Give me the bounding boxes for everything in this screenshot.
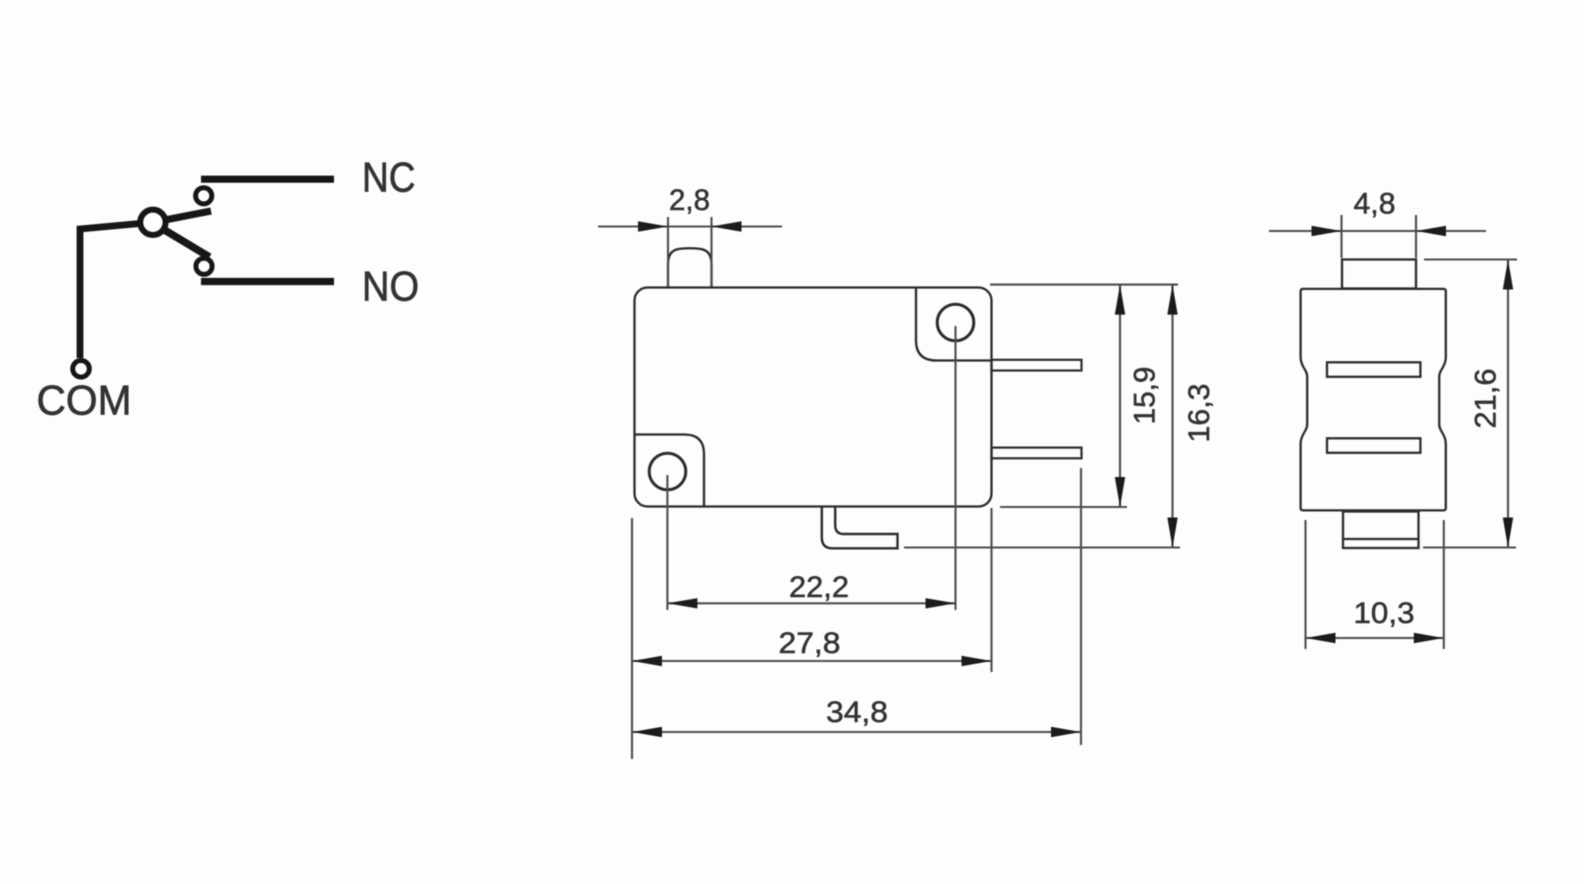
arrowhead 21,6 bottom bbox=[1503, 518, 1513, 548]
arrowhead 2,8 right bbox=[712, 221, 742, 231]
dim 15,9 / 16,3 top extension bbox=[990, 284, 1178, 286]
wire NO line bbox=[201, 278, 334, 285]
dim 15,9 line bbox=[1119, 285, 1121, 507]
svg-text:22,2: 22,2 bbox=[789, 571, 849, 604]
svg-text:NO: NO bbox=[362, 263, 419, 310]
dim 2,8 line bbox=[598, 225, 782, 227]
COM bent terminal (bottom) bbox=[822, 507, 898, 549]
bottom terminal blade line bbox=[1343, 538, 1419, 540]
NO blade terminal (lower right) bbox=[992, 448, 1082, 459]
svg-text:2,8: 2,8 bbox=[669, 184, 710, 217]
arrowhead 4,8 right bbox=[1416, 226, 1446, 236]
dim 16,3 line bbox=[1171, 285, 1173, 548]
dim 4,8 extension lines bbox=[1340, 215, 1342, 258]
top-right mounting hole bbox=[937, 304, 974, 341]
svg-text:16,3: 16,3 bbox=[1183, 384, 1216, 443]
dim 21,6 top extension bbox=[1424, 258, 1517, 260]
svg-text:34,8: 34,8 bbox=[826, 696, 888, 729]
top-right mounting boss contour bbox=[916, 288, 991, 361]
dim 15,9 bottom extension bbox=[1000, 506, 1127, 508]
arrowhead 10,3 right bbox=[1414, 633, 1444, 643]
svg-text:15,9: 15,9 bbox=[1129, 367, 1162, 425]
upper terminal slot bbox=[1327, 362, 1420, 377]
dim 27,8 line bbox=[632, 660, 992, 662]
dim 21,6 line bbox=[1507, 260, 1509, 548]
arrowhead 21,6 top bbox=[1503, 260, 1513, 290]
lower terminal slot bbox=[1327, 438, 1420, 453]
lever to NC contact bbox=[152, 211, 211, 223]
svg-text:21,6: 21,6 bbox=[1470, 369, 1503, 429]
NO contact circle bbox=[196, 258, 212, 274]
NC contact circle bbox=[196, 188, 212, 204]
NC blade terminal (upper right) bbox=[992, 360, 1082, 371]
dim 22,2 extension from bottom-left hole bbox=[666, 475, 668, 610]
end view body outline with waist bbox=[1301, 289, 1446, 511]
switch body outline bbox=[635, 288, 992, 507]
wire NC line bbox=[201, 176, 334, 183]
arrowhead 27,8 left bbox=[632, 656, 662, 666]
svg-text:COM: COM bbox=[37, 376, 132, 423]
dim 21,6 bottom extension bbox=[1423, 546, 1516, 548]
dim 27,8 right extension bbox=[990, 508, 992, 672]
arrowhead 34,8 right bbox=[1051, 727, 1081, 737]
dim 27,8 / 34,8 left extension bbox=[631, 518, 633, 759]
bottom terminal (end view) bbox=[1343, 512, 1419, 549]
dim 22,2 extension from top-right hole bbox=[954, 326, 956, 610]
dim 34,8 right extension bbox=[1080, 468, 1082, 745]
dim 4,8 line bbox=[1269, 230, 1486, 232]
arrowhead 10,3 left bbox=[1306, 633, 1336, 643]
dim 10,3 line bbox=[1306, 637, 1444, 639]
dim 22,2 line bbox=[667, 602, 955, 604]
pivot contact circle bbox=[140, 210, 165, 235]
arrowhead 22,2 right bbox=[926, 598, 956, 608]
arrowhead 34,8 left bbox=[632, 727, 662, 737]
arrowhead 16,3 top bbox=[1167, 285, 1177, 315]
arrowhead 22,2 left bbox=[667, 598, 697, 608]
svg-text:27,8: 27,8 bbox=[779, 627, 841, 660]
plunger (end view) bbox=[1342, 260, 1416, 289]
arrowhead 4,8 left bbox=[1312, 226, 1342, 236]
dim 34,8 line bbox=[632, 731, 1081, 733]
dim 2,8 extension lines bbox=[667, 217, 669, 286]
bottom-left mounting hole bbox=[649, 453, 686, 490]
bottom-left mounting boss contour bbox=[636, 435, 705, 506]
lever to NO contact bbox=[152, 223, 210, 258]
COM terminal circle bbox=[73, 361, 90, 378]
arrowhead 27,8 right bbox=[962, 656, 992, 666]
dim 10,3 extension lines bbox=[1304, 520, 1306, 649]
arrowhead 15,9 bottom bbox=[1115, 477, 1125, 507]
svg-text:4,8: 4,8 bbox=[1354, 188, 1396, 221]
dim 16,3 bottom extension bbox=[904, 546, 1180, 548]
svg-text:NC: NC bbox=[362, 154, 416, 201]
wire COM bbox=[80, 223, 151, 359]
plunger button bbox=[668, 248, 712, 287]
arrowhead 15,9 top bbox=[1115, 285, 1125, 315]
arrowhead 16,3 bottom bbox=[1167, 518, 1177, 548]
arrowhead 2,8 left bbox=[638, 221, 668, 231]
svg-text:10,3: 10,3 bbox=[1354, 597, 1415, 630]
